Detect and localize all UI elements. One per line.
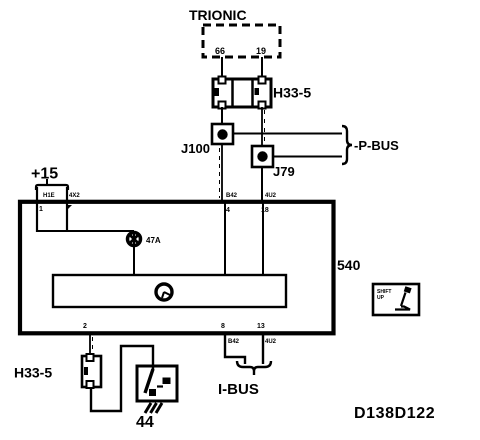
wire H33-5 to J100 bbox=[221, 107, 223, 124]
svg-text:13: 13 bbox=[257, 323, 265, 330]
switch 44 P contact bbox=[157, 385, 163, 387]
svg-text:1: 1 bbox=[39, 206, 43, 213]
svg-text:540: 540 bbox=[337, 257, 361, 273]
wire J79 to ECU pin 18 bbox=[261, 167, 263, 200]
+15 tick bbox=[46, 179, 48, 184]
svg-text:D138D122: D138D122 bbox=[354, 405, 435, 422]
svg-text:I-BUS: I-BUS bbox=[218, 381, 259, 398]
wire TRIONIC pin 19 to H33-5 bbox=[261, 57, 263, 79]
wire J100 dash artifact bbox=[219, 148, 221, 198]
svg-text:-P-BUS: -P-BUS bbox=[354, 138, 399, 153]
svg-text:2: 2 bbox=[83, 323, 87, 330]
shift lever pictogram box bbox=[373, 284, 419, 315]
ground bbox=[145, 403, 162, 413]
wire pin 13 to I-BUS bbox=[262, 335, 264, 364]
svg-text:B42: B42 bbox=[226, 193, 238, 199]
wire pin 4 internal bbox=[224, 203, 226, 275]
wire +15 junction horizontal bbox=[37, 230, 134, 232]
wire TRIONIC pin 66 to H33-5 bbox=[221, 57, 223, 79]
wire J100 to P-BUS bbox=[233, 133, 342, 135]
wire pin 18 internal bbox=[262, 203, 264, 275]
switch 44 box bbox=[137, 366, 177, 401]
svg-text:+15: +15 bbox=[31, 166, 58, 183]
+15 feed bracket bbox=[36, 185, 68, 190]
P-BUS brace bbox=[342, 126, 352, 164]
wire H33-5 to J79 bbox=[261, 107, 263, 146]
svg-text:TRIONIC: TRIONIC bbox=[189, 7, 247, 23]
connector H33-5 bottom bbox=[82, 354, 101, 388]
wire H33-5 to J79 dash artifact bbox=[264, 110, 266, 142]
switch 44 common terminal bbox=[149, 389, 156, 396]
switch 44 P contact flag bbox=[163, 378, 171, 385]
wire pin 2 to H33-5 bottom bbox=[89, 334, 91, 356]
svg-text:B42: B42 bbox=[228, 339, 240, 345]
svg-text:H33-5: H33-5 bbox=[273, 85, 311, 101]
ECU 540 box bbox=[20, 202, 334, 333]
svg-text:4U2: 4U2 bbox=[265, 193, 277, 199]
junction J79 bbox=[252, 146, 273, 167]
lamp 47A bbox=[128, 233, 141, 246]
svg-text:J79: J79 bbox=[273, 164, 295, 179]
svg-text:H33-5: H33-5 bbox=[14, 365, 52, 381]
wire pin2 dash artifact bbox=[92, 337, 94, 354]
svg-text:66: 66 bbox=[215, 46, 225, 56]
ECU TRIONIC dashed box bbox=[203, 25, 280, 57]
svg-text:44: 44 bbox=[136, 414, 154, 431]
svg-text:4U2: 4U2 bbox=[265, 339, 277, 345]
junction J100 bbox=[212, 124, 233, 144]
svg-text:H1E: H1E bbox=[43, 193, 55, 199]
svg-text:19: 19 bbox=[256, 46, 266, 56]
I-BUS brace bbox=[237, 361, 271, 375]
wire pin 8 to I-BUS bbox=[225, 335, 245, 364]
svg-text:8: 8 bbox=[221, 323, 225, 330]
svg-text:4X2: 4X2 bbox=[69, 193, 80, 199]
svg-text:UP: UP bbox=[377, 295, 385, 301]
wire H33-5 to switch 44 bbox=[91, 346, 153, 411]
wire +15 left leg bbox=[36, 187, 38, 232]
svg-text:4: 4 bbox=[226, 207, 230, 214]
wire J100 to ECU pin 4 bbox=[221, 145, 223, 200]
switch 44 lever bbox=[145, 369, 153, 393]
wire J79 to P-BUS bbox=[273, 156, 342, 158]
svg-text:47A: 47A bbox=[146, 236, 161, 245]
svg-text:J100: J100 bbox=[181, 141, 210, 156]
connector H33-5 top bbox=[213, 77, 271, 109]
wire lamp to module bbox=[133, 231, 135, 275]
module inner box bbox=[53, 275, 286, 307]
motor symbol bbox=[156, 284, 172, 300]
wire +15 right leg bbox=[66, 187, 68, 232]
pin mark right of +15 bbox=[67, 205, 72, 210]
